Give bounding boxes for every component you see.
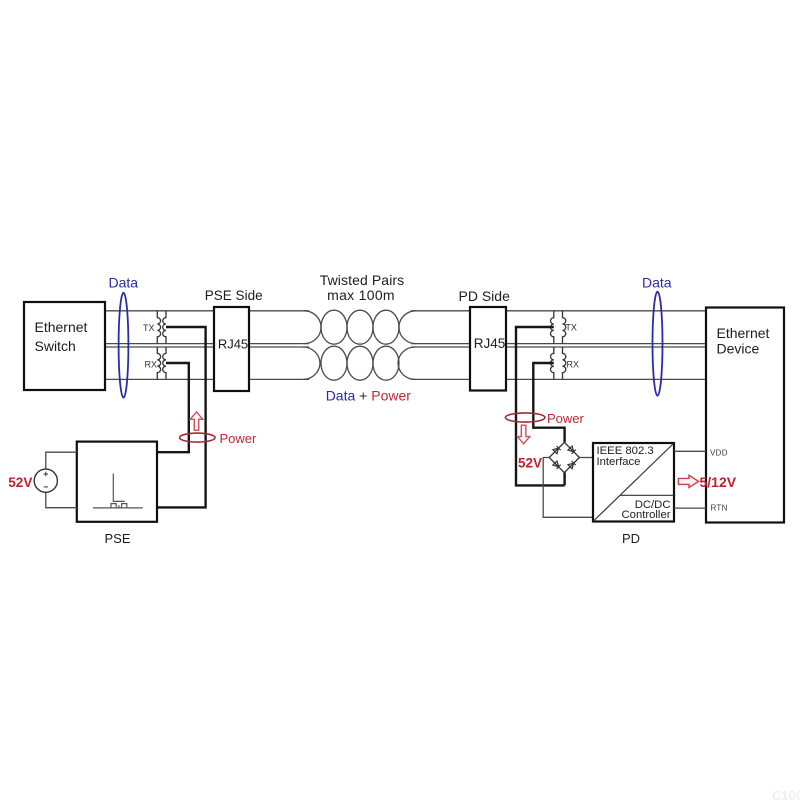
wire RTN (DC/DC box to device) xyxy=(674,507,706,509)
data ellipse right (blue) xyxy=(653,292,663,396)
svg-text:RJ45: RJ45 xyxy=(218,336,248,351)
Ethernet Device box xyxy=(706,308,784,523)
svg-text:RTN: RTN xyxy=(711,504,728,513)
twisted pair upper loop 1 xyxy=(321,310,347,344)
wire twisted pair to RJ45 right, line 3 xyxy=(411,346,470,348)
svg-text:Switch: Switch xyxy=(35,338,76,354)
PSE controller box xyxy=(77,442,157,522)
RJ45 connector PSE side xyxy=(214,307,249,391)
svg-text:5/12V: 5/12V xyxy=(700,474,737,490)
svg-text:52V: 52V xyxy=(8,475,32,490)
wire RJ45 right to Ethernet Device, line 2 xyxy=(506,343,706,345)
svg-text:Device: Device xyxy=(717,341,760,357)
diagonal divider inside box xyxy=(593,443,674,522)
power ellipse marker (PD) xyxy=(505,413,545,422)
transformer T3 TX (PD side) xyxy=(551,311,566,344)
power ellipse marker (PSE) xyxy=(180,433,215,442)
svg-text:VDD: VDD xyxy=(710,449,728,458)
twisted pair lower diverging curves xyxy=(398,347,415,379)
wire data line 4 (bottom pair -) PSE side xyxy=(105,378,214,380)
svg-text:PSE: PSE xyxy=(104,531,130,546)
svg-text:RJ45: RJ45 xyxy=(474,336,506,351)
wire PD RX center tap (thick) xyxy=(533,363,564,442)
svg-text:RX: RX xyxy=(567,360,580,370)
wire RJ45 left to twisted pair, line 4 xyxy=(249,378,309,380)
svg-text:Data: Data xyxy=(109,274,139,290)
wire twisted pair to RJ45 right, line 2 xyxy=(411,343,470,345)
svg-text:Ethernet: Ethernet xyxy=(717,325,770,341)
minus sign inside source xyxy=(44,486,48,488)
wire bridge left vertex to DC/DC return xyxy=(543,458,593,518)
wire RJ45 right to Ethernet Device, line 4 xyxy=(506,378,706,380)
power flow arrow up (PSE) xyxy=(190,412,203,430)
svg-text:TX: TX xyxy=(565,323,577,333)
power flow arrow down (PD) xyxy=(517,425,529,444)
PSE internal MOSFET switch xyxy=(93,474,143,508)
svg-text:PSE Side: PSE Side xyxy=(205,288,263,303)
plus sign inside source xyxy=(44,472,48,476)
wire RJ45 right to Ethernet Device, line 1 xyxy=(506,310,706,312)
Ethernet Switch box xyxy=(24,302,105,390)
diode D1 (edge L-T, cathode toward top vertex) xyxy=(553,446,561,454)
transformer T2 RX (PSE side) xyxy=(157,347,166,379)
wire bridge bottom vertex to negative rail xyxy=(563,472,565,485)
wire data line 1 (top pair +) PSE side xyxy=(105,310,214,312)
wire RJ45 left to twisted pair, line 3 xyxy=(249,346,309,348)
twisted pair upper (TX pair) converging curves xyxy=(304,311,321,344)
diode D3 (edge L-B, cathode toward bottom vertex) xyxy=(553,461,561,469)
twisted pair upper loop 2 xyxy=(347,310,373,344)
svg-text:C10C: C10C xyxy=(772,788,800,800)
svg-text:Controller: Controller xyxy=(622,509,671,521)
DC/DC section divider line xyxy=(621,494,675,496)
svg-text:Interface: Interface xyxy=(597,456,641,468)
wire VDD (interface box to device) xyxy=(674,450,706,452)
IEEE 802.3 interface / DC-DC controller box xyxy=(593,443,674,522)
wire twisted pair to RJ45 right, line 1 xyxy=(411,310,470,312)
twisted pair upper diverging curves xyxy=(399,311,416,344)
twisted pair upper loop 3 xyxy=(373,310,399,344)
svg-text:PD Side: PD Side xyxy=(459,288,511,304)
voltage source V1 52V circle xyxy=(34,469,57,492)
svg-text:Power: Power xyxy=(220,431,258,446)
wire data line 2 (top pair -) PSE side xyxy=(105,343,214,345)
wire PD TX center tap (thick) xyxy=(516,327,565,485)
data ellipse left (blue) xyxy=(119,293,129,398)
52V source wires (left) xyxy=(46,452,77,508)
transformer T1 TX (PSE side) xyxy=(157,311,166,344)
twisted pair lower (RX pair) converging curves xyxy=(303,347,320,379)
wire twisted pair to RJ45 right, line 4 xyxy=(411,378,470,380)
svg-text:Data + Power: Data + Power xyxy=(326,388,412,404)
svg-text:Power: Power xyxy=(547,411,585,426)
output arrow right (5/12V) xyxy=(678,475,698,487)
svg-text:RX: RX xyxy=(145,360,158,370)
wire RJ45 right to Ethernet Device, line 3 xyxy=(506,346,706,348)
svg-text:max 100m: max 100m xyxy=(327,287,395,303)
svg-text:Twisted Pairs: Twisted Pairs xyxy=(320,272,405,288)
svg-text:IEEE 802.3: IEEE 802.3 xyxy=(597,445,654,457)
wire RJ45 left to twisted pair, line 2 xyxy=(249,343,309,345)
diode D2 (edge T-R, cathode toward right vertex) xyxy=(568,446,576,454)
svg-text:Data: Data xyxy=(642,274,672,290)
svg-text:52V: 52V xyxy=(518,456,542,471)
twisted pair lower loop 1 xyxy=(321,346,347,380)
RJ45 connector PD side xyxy=(470,307,506,391)
wire PSE TX center tap (thick) xyxy=(158,327,206,507)
diode bridge BR1 diamond xyxy=(549,442,579,472)
wire data line 3 (bottom pair +) PSE side xyxy=(105,346,214,348)
svg-text:Ethernet: Ethernet xyxy=(35,319,88,335)
svg-text:PD: PD xyxy=(622,531,640,546)
wire PSE RX center tap (thick) xyxy=(158,363,189,452)
twisted pair lower loop 2 xyxy=(347,346,373,380)
twisted pair lower loop 3 xyxy=(373,346,399,380)
wire bridge right vertex to interface box xyxy=(579,457,593,459)
transformer T4 RX (PD side) xyxy=(550,347,565,379)
svg-text:TX: TX xyxy=(143,323,155,333)
diode D4 (edge B-R, cathode toward right vertex) xyxy=(568,461,576,469)
wire RJ45 left to twisted pair, line 1 xyxy=(249,310,309,312)
